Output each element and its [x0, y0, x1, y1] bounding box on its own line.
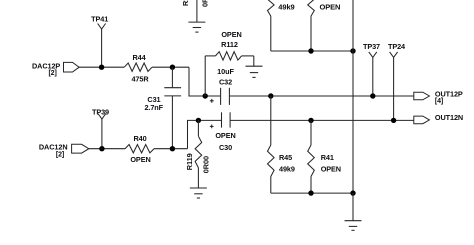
svg-text:TP39: TP39: [92, 108, 109, 117]
wire: [171, 67, 173, 88]
svg-text:49k9: 49k9: [278, 2, 294, 11]
svg-text:C32: C32: [219, 78, 232, 87]
resistor R112: [204, 56, 206, 96]
ground (top center): [188, 21, 205, 23]
resistor R119: [197, 120, 199, 136]
resistor R44: [124, 63, 152, 71]
node junction bus/main vertical: [350, 48, 355, 53]
node junction R112/C32: [203, 93, 208, 98]
node junction C31 bottom: [170, 146, 175, 151]
node junction TP37/OUT12P: [370, 93, 375, 98]
connector OUT12P: [413, 95, 415, 97]
svg-text:OPEN: OPEN: [221, 30, 241, 39]
test point TP37: [369, 52, 377, 58]
ground (main): [345, 220, 362, 222]
capacitor C30 plus: [210, 125, 214, 129]
test point TP41: [98, 24, 106, 30]
svg-text:R118: R118: [181, 0, 190, 6]
wire main vertical: [352, 0, 354, 193]
capacitor C30: [221, 112, 223, 127]
connector DAC12N: [72, 144, 89, 153]
node junction C31 top: [170, 65, 175, 70]
node junction TP39/DAC12N: [99, 146, 104, 151]
svg-text:DAC12P: DAC12P: [32, 61, 60, 70]
capacitor C31: [164, 87, 181, 89]
wire: [188, 120, 222, 148]
capacitor C32 plus: [210, 99, 214, 103]
node junction TP24/OUT12N: [391, 118, 396, 123]
capacitor C32: [220, 88, 222, 105]
svg-text:[4]: [4]: [435, 98, 443, 105]
wire: [89, 148, 125, 150]
wire OUT12N net: [230, 119, 414, 121]
svg-text:OPEN: OPEN: [130, 155, 150, 164]
svg-text:TP37: TP37: [363, 42, 380, 51]
svg-text:0R00: 0R00: [201, 0, 210, 7]
wire: [352, 193, 354, 221]
svg-text:49k9: 49k9: [279, 165, 295, 174]
svg-text:R119: R119: [185, 153, 194, 170]
svg-text:0R00: 0R00: [202, 156, 211, 173]
wire: [152, 66, 189, 68]
wire: [154, 148, 188, 150]
resistor 49k9 top (cut off): [268, 0, 275, 16]
wire top bus: [271, 50, 353, 52]
svg-text:[2]: [2]: [56, 151, 64, 158]
svg-text:OPEN: OPEN: [215, 131, 235, 140]
svg-text:[2]: [2]: [48, 70, 56, 77]
node junction OPEN-top/bus: [308, 48, 313, 53]
svg-text:R112: R112: [221, 40, 238, 49]
node junction bottom bus/main vertical: [350, 190, 355, 195]
resistor R41: [310, 120, 312, 145]
svg-text:2.7nF: 2.7nF: [144, 103, 163, 112]
resistor R40: [125, 145, 154, 153]
resistor R45: [270, 96, 272, 145]
wire OUT12P net: [229, 95, 413, 97]
ground (R119): [190, 187, 207, 189]
svg-text:DAC12N: DAC12N: [39, 142, 68, 151]
test point TP39: [98, 114, 106, 120]
svg-text:10uF: 10uF: [217, 67, 234, 76]
node junction R119/C30: [196, 118, 201, 123]
test point TP24: [390, 52, 398, 58]
svg-text:R44: R44: [132, 53, 146, 62]
resistor OPEN top (cut off): [308, 0, 315, 16]
node junction TP41/DAC12P: [99, 65, 104, 70]
wire: [79, 66, 124, 68]
svg-text:R45: R45: [279, 153, 292, 162]
node junction R41/OUT12N: [308, 118, 313, 123]
svg-text:R41: R41: [321, 153, 334, 162]
wire bottom bus: [271, 192, 353, 194]
wire: [171, 96, 173, 149]
wire: [189, 67, 221, 96]
ground (R112): [246, 65, 263, 67]
svg-text:OUT12N: OUT12N: [435, 113, 463, 122]
resistor R118 (cut off): [196, 0, 198, 22]
svg-text:C30: C30: [219, 143, 232, 152]
svg-text:TP41: TP41: [91, 15, 108, 24]
svg-text:R40: R40: [133, 134, 146, 143]
connector OUT12N: [414, 116, 430, 124]
svg-text:OPEN: OPEN: [321, 165, 341, 174]
svg-text:475R: 475R: [131, 75, 149, 84]
node junction R45/OUT12P: [268, 93, 273, 98]
connector DAC12P: [64, 62, 80, 72]
node junction R41/bottom bus: [308, 190, 313, 195]
svg-text:OPEN: OPEN: [320, 2, 341, 11]
svg-text:TP24: TP24: [388, 42, 406, 51]
wire: [253, 56, 255, 66]
